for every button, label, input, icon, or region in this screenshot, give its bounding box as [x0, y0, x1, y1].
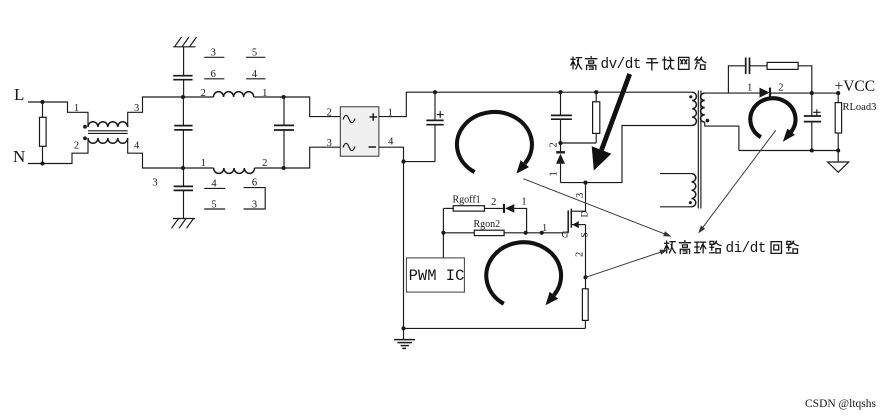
resistor R4 snubber: [767, 62, 812, 93]
wire R1 bottom: [42, 146, 44, 163]
label dv/dt interference network text: [571, 57, 706, 73]
capacitor CY2 bottom: [174, 168, 193, 219]
loop arrow 3 secondary loop: [750, 98, 795, 141]
wire callout arrow 2 from loop3: [698, 130, 776, 233]
wire T1 pin4 to bottom rail: [128, 138, 183, 168]
svg-text:dv/dt: dv/dt: [601, 57, 641, 73]
resistor Rgon2: [443, 219, 568, 236]
arrow thick dv/dt callout: [592, 74, 630, 171]
svg-text:2: 2: [778, 83, 783, 94]
svg-text:G: G: [562, 231, 569, 241]
label di/dt loop text: [665, 241, 799, 257]
node clamp junction: [558, 141, 562, 145]
wire T1 pin3 to top rail: [128, 97, 183, 127]
transistor Q1 mosfet: [568, 209, 585, 289]
svg-text:6: 6: [252, 178, 257, 189]
resistor R3 sense: [582, 289, 588, 329]
node drain junction: [583, 181, 587, 185]
ground symbol earth: [394, 328, 415, 348]
wire N input: [28, 138, 88, 164]
ground symbol output triangle: [828, 151, 849, 173]
node C CX2 top junction: [282, 95, 286, 99]
svg-text:1: 1: [542, 223, 547, 234]
wire output bottom rail: [739, 150, 838, 152]
node D CX2 bottom junction: [282, 166, 286, 170]
svg-text:4: 4: [134, 141, 140, 152]
capacitor C4 output electrolytic: [804, 93, 821, 150]
capacitor C3 snubber: [728, 58, 767, 94]
wire to bridge pin3: [284, 147, 341, 168]
transformer T2 primary winding: [689, 92, 696, 125]
wire to bridge pin2: [284, 97, 341, 117]
node N junction: [40, 161, 44, 165]
wire bridge pin4 down left vertical: [379, 147, 404, 328]
svg-text:PWM IC: PWM IC: [409, 267, 465, 285]
node C1 return junction: [401, 160, 405, 164]
svg-text:1: 1: [521, 197, 526, 208]
node L junction: [40, 100, 44, 104]
svg-text:3: 3: [327, 138, 332, 149]
transformer T1 common-mode choke: [83, 122, 128, 144]
svg-text:2: 2: [327, 107, 332, 118]
wire clamp RC bottom: [561, 142, 597, 144]
pin pair labels below L2: [204, 178, 265, 211]
svg-text:1: 1: [74, 103, 79, 114]
capacitor C2 clamp: [551, 92, 572, 143]
transformer T2 core: [698, 91, 701, 209]
transformer T2 aux winding: [660, 174, 696, 207]
wire drain vertical: [585, 183, 587, 212]
chassis ground bottom hatched: [172, 219, 196, 229]
svg-text:+VCC: +VCC: [835, 78, 876, 95]
wire top ground to CY1: [183, 47, 185, 75]
inductor L1 top differential: [183, 92, 284, 97]
wire R1 top: [42, 102, 44, 117]
svg-text:2: 2: [549, 142, 560, 147]
svg-text:2: 2: [491, 197, 496, 208]
svg-text:1: 1: [201, 158, 206, 169]
chassis ground top hatched: [173, 37, 196, 47]
svg-text:4: 4: [211, 178, 217, 189]
svg-text:2: 2: [262, 158, 267, 169]
node Rg left junction: [441, 231, 445, 235]
svg-text:N: N: [13, 147, 25, 166]
node D3 cathode junction: [810, 91, 814, 95]
svg-text:RLoad3: RLoad3: [843, 102, 877, 113]
diode D2 gate: [504, 204, 527, 233]
wire bottom rail: [404, 327, 586, 329]
resistor RLoad3: [835, 93, 876, 150]
svg-text:2: 2: [74, 141, 79, 152]
node gate junction 1: [540, 231, 544, 235]
node RLoad bottom junction: [836, 148, 840, 152]
inductor L2 bottom differential: [183, 168, 284, 173]
svg-text:4: 4: [388, 137, 394, 148]
resistor Rgoff1: [443, 194, 503, 211]
svg-text:S: S: [581, 232, 591, 237]
node B bottom-left filter junction: [181, 166, 185, 170]
op-amp U1 PWM IC box: [406, 258, 464, 292]
diode D3 output: [760, 88, 839, 98]
wire secondary bottom: [705, 122, 739, 150]
wire CY1 to node A: [183, 80, 185, 97]
wire bridge pin1 to top rail: [379, 92, 692, 116]
node C4 bottom junction: [810, 148, 814, 152]
wire Rg left vertical to PWM: [442, 208, 444, 258]
resistor R1 input: [40, 117, 47, 146]
capacitor CY1 top: [173, 76, 192, 80]
node R2 top rail junction: [594, 90, 598, 94]
svg-text:2: 2: [575, 252, 586, 257]
svg-text:L: L: [14, 85, 24, 104]
wire secondary top: [705, 92, 760, 94]
svg-text:Rgoff1: Rgoff1: [453, 194, 481, 205]
wire C1 return: [404, 161, 436, 163]
pin pair labels above L1: [204, 48, 265, 81]
capacitor CX1: [174, 97, 192, 168]
node ground junction: [401, 326, 405, 330]
svg-text:1: 1: [262, 88, 267, 99]
node gate junction D2: [524, 231, 528, 235]
svg-text:1: 1: [549, 171, 560, 176]
loop arrow 2 gate loop: [486, 242, 561, 305]
svg-text:D: D: [581, 211, 591, 218]
svg-text:2: 2: [201, 88, 206, 99]
diode D1 clamp: [556, 143, 565, 183]
node C1 top junction: [433, 90, 437, 94]
resistor R2 clamp: [593, 92, 600, 143]
wire drain node horizontal: [561, 126, 693, 183]
bridge rectifier BR1: [340, 107, 379, 156]
svg-text:Rgon2: Rgon2: [474, 219, 501, 230]
wire callout arrow 1 from loop1: [523, 179, 671, 237]
svg-text:CSDN @ltqshs: CSDN @ltqshs: [805, 398, 877, 410]
capacitor CX2: [274, 97, 294, 168]
node source sense junction: [583, 275, 587, 279]
node C2 top rail junction: [558, 90, 562, 94]
node VCC junction: [836, 91, 840, 95]
capacitor C1 bulk electrolytic: [426, 92, 443, 161]
svg-text:3: 3: [575, 193, 586, 198]
loop arrow 1 primary loop: [457, 112, 532, 174]
node A top-left filter junction: [181, 95, 185, 99]
svg-text:3: 3: [152, 178, 157, 189]
svg-text:1: 1: [747, 83, 752, 94]
wire callout arrow 3 from sense node: [585, 250, 667, 278]
wire L input: [28, 102, 88, 127]
transformer T2 secondary winding: [700, 93, 709, 122]
svg-text:di/dt: di/dt: [726, 241, 766, 257]
